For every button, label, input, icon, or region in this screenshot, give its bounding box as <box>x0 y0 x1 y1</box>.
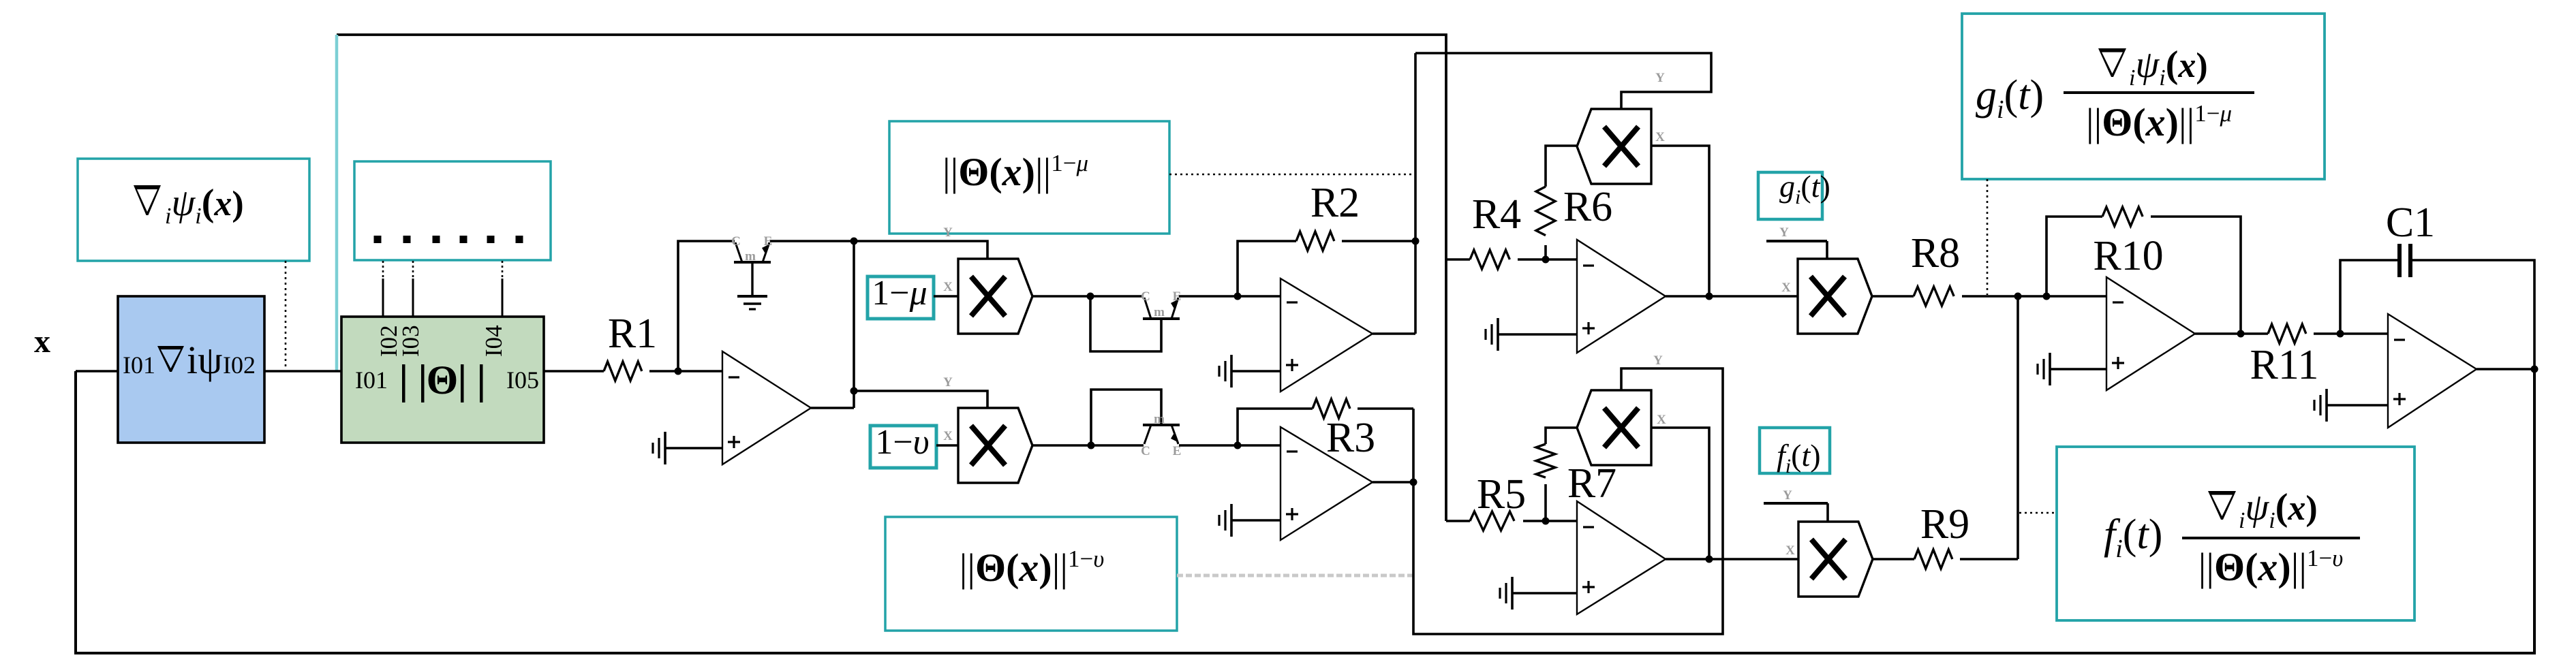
multiplier M2 <box>958 408 1032 483</box>
block norm theta label I05 <box>506 366 539 394</box>
annotation box dots <box>354 161 551 260</box>
svg-text:C: C <box>1141 289 1150 304</box>
multiplier M1 <box>958 259 1032 334</box>
wire 1-mu to M1 <box>934 295 958 298</box>
ground at U3 plus input <box>1219 504 1281 537</box>
svg-text:X: X <box>1657 413 1666 427</box>
block norm theta Theta glyph <box>427 358 459 402</box>
dotted link g box to R8 node <box>1987 179 1989 295</box>
junction U6 output <box>2237 330 2245 338</box>
annotation box nabla_i psi_i(x) <box>78 159 309 261</box>
svg-text:I03: I03 <box>397 325 424 357</box>
svg-text:1−μ: 1−μ <box>872 274 927 313</box>
resistor R10 <box>2102 207 2143 226</box>
block norm theta label I01 <box>355 366 388 394</box>
label g_i(t) coefficient <box>1976 72 2044 124</box>
resistor R6 <box>1536 187 1555 236</box>
svg-text:I04: I04 <box>480 325 507 357</box>
svg-text:fi(t): fi(t) <box>1777 438 1821 477</box>
annotation box f_i(t) <box>1760 428 1830 473</box>
annotation box norm theta 1-mu <box>889 121 1169 234</box>
op-amp U4 <box>1577 240 1666 353</box>
block gradient label <box>123 338 256 382</box>
resistor R11 <box>2268 324 2306 343</box>
label Q3 E <box>1173 444 1182 458</box>
label R5 <box>1477 471 1526 518</box>
resistor R8 <box>1914 287 1954 306</box>
pin wire I04 <box>502 261 504 317</box>
wire M4 output to R8 <box>1872 295 1914 298</box>
wire loop over Q3 <box>1091 390 1161 445</box>
junction at U3 minus <box>1234 442 1242 449</box>
ground below Q1 <box>737 296 767 309</box>
resistor R9 <box>1914 550 1952 569</box>
label R11 <box>2250 342 2318 388</box>
svg-text:R5: R5 <box>1477 471 1526 518</box>
wire M6 output to R9 <box>1873 558 1914 560</box>
wire feedback up from R1 node <box>678 241 735 371</box>
svg-text:Y: Y <box>1779 225 1789 240</box>
svg-text:X: X <box>1785 543 1795 558</box>
wire teal riser at node A <box>335 35 339 371</box>
op-amp U1 <box>722 351 811 464</box>
label M4 X <box>1781 281 1791 295</box>
wire U1 output <box>811 407 854 409</box>
label R3 <box>1326 415 1375 461</box>
constant box 1-v <box>870 426 936 468</box>
resistor R3 <box>1313 399 1350 418</box>
junction at U2 minus <box>1234 293 1242 300</box>
junction node B lower <box>850 388 858 395</box>
svg-text:I05: I05 <box>506 366 539 394</box>
junction R7/R5 <box>1542 518 1550 525</box>
label M3 X <box>1655 130 1665 144</box>
constant box 1-mu <box>868 276 934 319</box>
pin label I02 <box>375 325 402 357</box>
svg-text:C: C <box>1141 444 1150 458</box>
wire 1-v to M2 <box>936 444 958 447</box>
resistor R7 <box>1536 444 1555 477</box>
junction C1 branch <box>2337 330 2344 338</box>
multiplier M3 <box>1577 109 1651 184</box>
wire R3 to output column <box>1358 407 1413 410</box>
junction node R1/feedback <box>675 368 682 375</box>
node x input wire <box>76 370 118 373</box>
label M5 X <box>1657 413 1666 427</box>
label R10 <box>2093 233 2163 279</box>
dotted link f box to R9 node <box>2019 512 2057 514</box>
svg-text:R9: R9 <box>1920 501 1969 548</box>
wire Q2 to U2 minus <box>1179 295 1281 298</box>
fraction bar f <box>2182 537 2360 539</box>
multiplier M5 <box>1577 390 1651 465</box>
resistor R2 <box>1296 232 1334 251</box>
annotation box g_i(t) <box>1758 172 1822 219</box>
op-amp U6 <box>2106 277 2195 390</box>
svg-text:iψi(x): iψi(x) <box>165 182 244 229</box>
svg-text:X: X <box>1655 130 1665 144</box>
resistor R5 <box>1470 511 1514 531</box>
svg-text:R8: R8 <box>1911 230 1960 276</box>
wire U2 output up to top <box>1414 53 1417 334</box>
wire bottom feedback loop from final output to node x <box>76 370 2534 653</box>
junction U7 output <box>2531 366 2539 373</box>
svg-text:iψi(x): iψi(x) <box>2129 44 2208 91</box>
label g_i(t) <box>1779 169 1830 208</box>
label M3 Y <box>1655 71 1665 85</box>
svg-text:R2: R2 <box>1310 180 1360 226</box>
svg-text:m: m <box>745 249 756 264</box>
wire C1 to output <box>2412 260 2534 369</box>
annotation box norm theta 1-v <box>885 517 1177 631</box>
svg-text:m: m <box>1154 412 1165 426</box>
wire blue box to green box <box>264 370 341 373</box>
op-amp U2 <box>1281 279 1373 392</box>
wire M1 output <box>1032 295 1144 298</box>
annotation box f_i(t) fraction <box>2057 447 2414 620</box>
probe bar g_i(t) <box>1766 240 1827 242</box>
svg-text:X: X <box>1781 281 1791 295</box>
wire M5 output to R7 <box>1546 428 1577 444</box>
wire Q3 to U3 minus <box>1179 444 1281 447</box>
svg-text:Y: Y <box>943 375 953 390</box>
ground at U7 plus input <box>2314 389 2388 422</box>
wire green box to R1 <box>544 370 604 373</box>
svg-text:I02: I02 <box>223 351 256 379</box>
wire M5 X input <box>1651 428 1709 559</box>
ground at U1 plus input <box>653 432 722 464</box>
label f fraction numerator <box>2208 486 2318 533</box>
label M2 Y <box>943 375 953 390</box>
svg-text:R7: R7 <box>1567 460 1616 507</box>
annotation box g_i(t) fraction <box>1962 14 2325 179</box>
block gradient nabla-i-psi <box>118 296 264 443</box>
label R8 <box>1911 230 1960 276</box>
wire probe to M6 Y input <box>1826 503 1829 522</box>
label 1-v <box>875 423 929 462</box>
wire R10 branch <box>2046 217 2102 296</box>
ground at U6 plus input <box>2038 353 2106 385</box>
svg-text:R6: R6 <box>1563 184 1612 230</box>
svg-text:I01: I01 <box>123 351 155 379</box>
label Q2 C <box>1141 289 1150 304</box>
wire probe to M4 Y input <box>1826 241 1828 259</box>
label M1 Y <box>943 225 953 240</box>
svg-text:Θ: Θ <box>427 358 459 402</box>
label M1 X <box>943 280 953 294</box>
svg-text:X: X <box>943 280 953 294</box>
label g fraction denominator <box>2086 100 2232 144</box>
fraction bar g <box>2064 91 2254 94</box>
svg-text:R11: R11 <box>2250 342 2318 388</box>
junction U5 output / M5 X <box>1706 556 1713 563</box>
label Q1 C <box>731 234 741 249</box>
grey dashed link 1-v box to column <box>1177 574 1414 578</box>
junction R10 branch <box>2043 293 2051 300</box>
svg-text:iψ: iψ <box>187 338 222 382</box>
label R6 <box>1563 184 1612 230</box>
junction U3 output <box>1410 479 1417 486</box>
wire R11 to U7 minus <box>2314 332 2388 335</box>
dots in annotation box <box>374 236 523 243</box>
junction after M1 <box>1087 293 1094 300</box>
label R2 <box>1310 180 1360 226</box>
wire U7 output <box>2477 368 2534 370</box>
wire R1 to op-amp U1 <box>649 370 722 373</box>
pin label I04 <box>480 325 507 357</box>
capacitor C1 <box>2399 244 2410 277</box>
dotted link from nabla box to node wire <box>285 261 287 368</box>
label f fraction denominator <box>2198 545 2344 589</box>
label R4 <box>1472 191 1521 238</box>
label R9 <box>1920 501 1969 548</box>
probe bar f_i(t) <box>1764 502 1828 505</box>
wire R2 branch <box>1238 241 1296 296</box>
svg-text:R1: R1 <box>608 311 657 357</box>
label M6 Y <box>1783 488 1792 503</box>
label f_i(t) <box>1777 438 1821 477</box>
wire loop under Q2 <box>1090 296 1161 351</box>
wire top to M3 Y input <box>1415 53 1711 109</box>
wire R7 to minus node <box>1544 484 1547 521</box>
label norm theta 1-v <box>960 546 1105 590</box>
wire M3 output to R6 <box>1546 146 1577 187</box>
wire R8 node down to R9 node <box>2017 296 2019 559</box>
wire R10 to U6 output <box>2151 217 2241 334</box>
label norm theta 1-mu <box>942 150 1088 194</box>
wire R9 to column <box>1960 558 2018 560</box>
wire M3 X input <box>1651 146 1709 296</box>
wire M2 output <box>1032 444 1144 447</box>
transistor Q1 <box>734 242 771 262</box>
junction R6/R4 <box>1542 256 1550 264</box>
label R1 <box>608 311 657 357</box>
wire R5 from feedback column <box>1446 520 1470 522</box>
wire U3 output column to M5 Y <box>1413 368 1723 634</box>
label Q2 E <box>1173 289 1182 304</box>
wire C1 branch <box>2340 260 2397 334</box>
svg-text:Y: Y <box>1653 353 1663 368</box>
wire top feedback from node A to R4/R5 column <box>337 35 1446 521</box>
multiplier M4 <box>1798 259 1872 334</box>
label Q1 m <box>745 249 756 264</box>
wire Q1 to node B <box>770 240 854 242</box>
svg-text:gi(t): gi(t) <box>1976 72 2044 124</box>
svg-text:I01: I01 <box>355 366 388 394</box>
junction node B <box>850 238 858 245</box>
resistor R4 <box>1470 250 1509 269</box>
wire R4 from feedback column <box>1446 258 1470 261</box>
label Q2 m <box>1154 305 1165 319</box>
label Q3 m <box>1154 412 1165 426</box>
node x label <box>34 323 50 360</box>
block norm theta bars <box>402 364 483 402</box>
pin wire I02 <box>382 261 384 317</box>
junction R2/output column <box>1412 238 1420 245</box>
ground at U5 plus input <box>1500 577 1577 610</box>
wire Q1 stem to ground <box>751 262 753 296</box>
junction U4 output / M3 X <box>1706 293 1713 300</box>
svg-text:iψi(x): iψi(x) <box>2239 486 2318 533</box>
svg-text:R3: R3 <box>1326 415 1375 461</box>
label R7 <box>1567 460 1616 507</box>
label M2 X <box>943 429 953 443</box>
wire R4 to U4 minus <box>1518 258 1577 261</box>
label f_i(t) coefficient <box>2104 511 2162 563</box>
svg-text:C: C <box>731 234 741 249</box>
svg-text:C1: C1 <box>2386 200 2435 246</box>
label nabla_i psi_i(x) <box>134 182 244 229</box>
label Q1 E <box>764 234 773 249</box>
wire U2 output <box>1373 332 1415 335</box>
svg-text:Y: Y <box>943 225 953 240</box>
wire U5 output to M6 <box>1666 558 1798 560</box>
wire R2 to U2 output column <box>1342 240 1415 242</box>
transistor Q3 <box>1143 425 1180 444</box>
wire node B to M1 Y input <box>854 241 987 259</box>
dotted link 1-mu box to column <box>1169 174 1415 176</box>
label Q3 C <box>1141 444 1150 458</box>
pin label I03 <box>397 325 424 357</box>
op-amp U7 <box>2388 314 2477 428</box>
label M4 Y <box>1779 225 1789 240</box>
svg-text:Y: Y <box>1655 71 1665 85</box>
resistor R1 <box>604 362 642 381</box>
svg-text:x: x <box>34 323 50 360</box>
op-amp U3 <box>1281 427 1373 540</box>
label g fraction numerator <box>2098 44 2208 91</box>
wire R8 to U6 minus <box>1962 295 2106 298</box>
label M5 Y <box>1653 353 1663 368</box>
junction R8/R9 column <box>2014 293 2022 300</box>
ground at U2 plus input <box>1219 355 1281 388</box>
svg-text:R4: R4 <box>1472 191 1521 238</box>
ground at U4 plus input <box>1486 318 1577 351</box>
label C1 <box>2386 200 2435 246</box>
svg-text:fi(t): fi(t) <box>2104 511 2162 563</box>
wire U3 output <box>1373 481 1413 484</box>
wire R5 to U5 minus <box>1523 520 1577 522</box>
svg-text:X: X <box>943 429 953 443</box>
op-amp U5 <box>1577 501 1666 614</box>
pin wire I03 <box>412 261 414 317</box>
wire U6 output <box>2195 332 2268 335</box>
multiplier M6 <box>1798 522 1873 597</box>
svg-text:Y: Y <box>1783 488 1792 503</box>
svg-text:1−υ: 1−υ <box>875 423 929 462</box>
label M6 X <box>1785 543 1795 558</box>
label 1-mu <box>872 274 927 313</box>
junction after M2 <box>1088 442 1095 449</box>
svg-text:gi(t): gi(t) <box>1779 169 1830 208</box>
transistor Q2 <box>1143 298 1180 319</box>
wire R6 to minus node <box>1544 245 1547 259</box>
wire U4 output to M4 <box>1666 295 1798 298</box>
block norm theta <box>341 317 544 443</box>
wire R3 branch <box>1238 409 1313 445</box>
svg-text:R10: R10 <box>2093 233 2163 279</box>
svg-text:m: m <box>1154 305 1165 319</box>
wire node B to M2 Y input <box>854 391 987 408</box>
wire node column B <box>853 241 855 408</box>
